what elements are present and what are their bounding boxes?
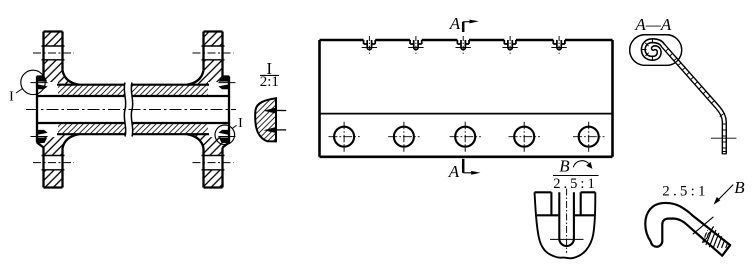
detail I flared thin section (bottom, blackened) <box>264 127 278 134</box>
pipe break line (right half) <box>131 83 133 137</box>
detail B outer freehand boundary <box>535 192 596 258</box>
flange bore clearance (left top) <box>37 82 58 96</box>
left flange bolt hole (top) <box>42 46 66 60</box>
svg-text:B: B <box>734 178 745 197</box>
hole 3 <box>455 127 475 147</box>
hole 4 <box>514 127 534 147</box>
T-slot notch 2 <box>410 40 422 50</box>
flared pipe-end thin section (right bottom, blackened) <box>218 130 229 144</box>
right pipe wall hatched (top, fine) <box>132 85 229 96</box>
hook detail boundary crossing line <box>693 217 714 234</box>
hook end section hatching <box>701 230 737 248</box>
T-slot notch 3 centerlines <box>462 36 464 55</box>
plate divider line <box>320 113 613 115</box>
detail B scale fraction bar <box>553 175 599 177</box>
pipe break line (left half) <box>124 83 126 137</box>
tail end line <box>722 153 727 155</box>
T-slot notch 1 centerlines <box>368 36 370 55</box>
hole 1 centerlines <box>343 122 345 152</box>
right pipe wall hatched (bottom, fine) <box>132 123 229 134</box>
svg-text:A—A: A—A <box>634 15 672 34</box>
hole 2 centerlines <box>403 122 405 152</box>
cutting plane trace + arrow (bottom) <box>462 159 465 173</box>
wire hook sectioned strip (A-A): curled head <box>643 41 663 59</box>
detail circle I (right) <box>215 125 235 145</box>
svg-text:A: A <box>448 162 460 181</box>
flange bore clearance (left bottom) <box>37 124 58 138</box>
detail circle I (left) <box>21 70 45 94</box>
T-slot notch 2 centerlines <box>415 36 417 55</box>
hook body outline <box>645 203 730 256</box>
T-slot notch 4 centerlines <box>509 36 511 55</box>
hole 1 <box>334 127 354 147</box>
left pipe wall hatched (bottom, fine) <box>37 123 125 134</box>
flared pipe-end thin section (left top, blackened) <box>37 76 48 90</box>
T-slot notch 5 <box>553 40 565 50</box>
right flange hatched section (top leg, coarse) <box>187 32 223 85</box>
svg-text:A: A <box>449 14 461 33</box>
right flange bolt hole (bottom) <box>202 155 226 170</box>
flange bore clearance (right top) <box>208 82 229 96</box>
left flange contour <box>44 32 80 188</box>
detail B ledges <box>537 214 594 216</box>
svg-text:2.5:1: 2.5:1 <box>662 184 708 200</box>
hole 4 centerlines <box>523 122 525 152</box>
left pipe wall hatched (top, fine) <box>37 85 125 96</box>
stadium outline restroke <box>630 35 682 66</box>
left pipe outer and bore lines <box>37 85 125 135</box>
right flange contour <box>187 32 223 188</box>
T-slot notch 5 centerlines <box>558 36 560 55</box>
detail B recess walls <box>551 192 580 215</box>
plate outline <box>320 40 613 157</box>
leader line to label I (right) <box>232 125 236 128</box>
flared pipe-end thin section (left bottom, blackened) <box>37 130 48 144</box>
cutting plane trace + arrow (top) <box>462 22 465 32</box>
left pipe stub end face (lap) <box>37 77 44 148</box>
pipe axis centerline <box>26 109 236 111</box>
svg-text:I: I <box>238 116 243 131</box>
svg-text:2:1: 2:1 <box>260 74 279 90</box>
section hatching rungs on strip <box>665 48 715 103</box>
bolt hole centerlines <box>33 53 234 163</box>
hole 5 <box>579 127 599 147</box>
detail B top edges <box>535 191 596 193</box>
hole 3 centerlines <box>464 122 466 152</box>
rungs on curled head <box>642 39 653 61</box>
flared pipe-end thin section (right top, blackened) <box>218 76 229 90</box>
left flange hatched section (top leg, coarse) <box>44 32 80 85</box>
detail I flared thin section (top, blackened) <box>264 107 278 114</box>
T-slot notch 1 <box>364 40 376 50</box>
stadium outline around curled end <box>630 35 682 66</box>
svg-text:2.5:1: 2.5:1 <box>553 176 597 192</box>
detail B horizontal centerline <box>550 238 584 240</box>
detail I enlarged flange-ring section <box>255 98 276 141</box>
right flange bolt hole (top) <box>202 46 226 60</box>
tail crossing line <box>711 137 737 139</box>
T-slot notch 4 <box>504 40 516 50</box>
detail B slot walls + round bottom <box>559 192 574 246</box>
wire hook sectioned strip (A-A): shank and tail <box>663 46 724 154</box>
left flange hatched section (bottom leg, coarse) <box>44 134 80 187</box>
left flange bolt hole (bottom) <box>42 155 66 170</box>
hook break (wavy) line <box>704 227 714 243</box>
svg-text:B: B <box>559 157 570 176</box>
right flange hatched section (bottom leg, coarse) <box>187 134 223 187</box>
detail B vertical centerline <box>566 189 568 254</box>
flange bore clearance (right bottom) <box>208 124 229 138</box>
hole 2 <box>394 127 414 147</box>
T-slot notch 3 <box>457 40 469 50</box>
svg-text:I: I <box>9 90 14 105</box>
hole 5 centerlines <box>588 122 590 152</box>
leader line to label I (left) <box>16 89 23 94</box>
right pipe stub end face (lap) <box>223 77 230 148</box>
right pipe outer and bore lines <box>132 85 229 135</box>
